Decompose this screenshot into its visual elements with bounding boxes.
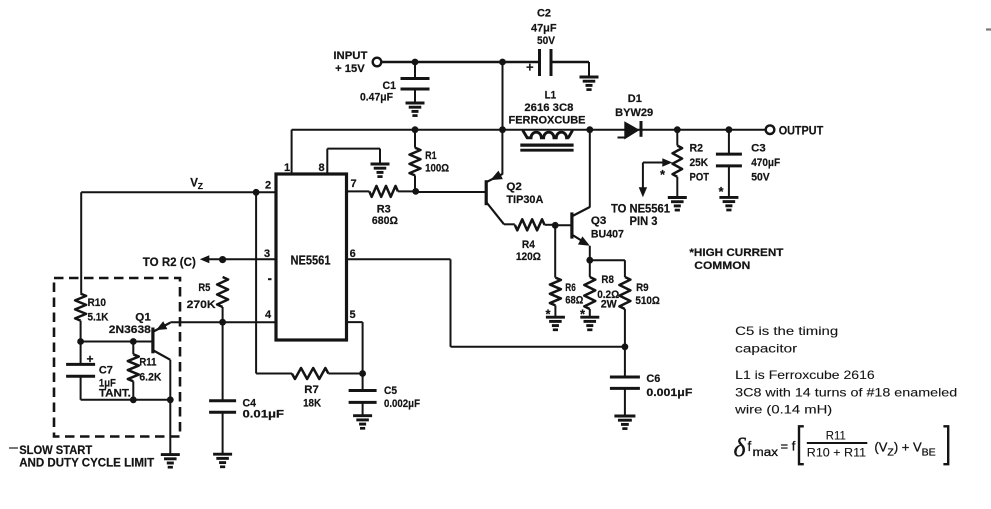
svg-text:R11: R11 (826, 428, 846, 442)
svg-text:L1: L1 (545, 89, 557, 101)
svg-text:Z: Z (198, 181, 203, 191)
svg-text:TO NE5561: TO NE5561 (611, 203, 671, 215)
svg-text:R5: R5 (198, 282, 210, 294)
svg-text:Q1: Q1 (135, 312, 151, 324)
svg-text:NE5561: NE5561 (291, 254, 331, 268)
svg-text:+: + (87, 352, 94, 366)
svg-text:OUTPUT: OUTPUT (779, 125, 824, 137)
svg-text:0.001μF: 0.001μF (646, 387, 692, 399)
svg-text:R4: R4 (522, 239, 536, 251)
svg-text:capacitor: capacitor (735, 342, 797, 356)
svg-text:47μF: 47μF (531, 23, 557, 35)
svg-text:TIP30A: TIP30A (506, 194, 543, 206)
svg-text:f: f (748, 439, 752, 454)
svg-text:4: 4 (265, 309, 272, 321)
svg-text:2W: 2W (601, 299, 618, 311)
svg-text:R1: R1 (425, 150, 437, 162)
svg-text:120Ω: 120Ω (516, 251, 541, 263)
svg-text:BU407: BU407 (591, 228, 624, 240)
svg-text:+: + (526, 60, 534, 75)
svg-text:AND DUTY CYCLE LIMIT: AND DUTY CYCLE LIMIT (19, 456, 155, 470)
svg-text:R2: R2 (690, 143, 704, 155)
svg-text:0.01μF: 0.01μF (243, 408, 285, 420)
svg-text:C3: C3 (751, 143, 766, 155)
svg-text:R3: R3 (377, 204, 391, 216)
svg-text:R10: R10 (88, 297, 107, 309)
svg-text:510Ω: 510Ω (635, 295, 660, 307)
svg-text:270K: 270K (187, 299, 216, 311)
svg-text:3: 3 (264, 248, 270, 260)
svg-text:wire (0.14 mH): wire (0.14 mH) (734, 403, 832, 417)
svg-text:6.2K: 6.2K (139, 372, 161, 384)
svg-text:1: 1 (284, 162, 290, 174)
svg-text:2616 3C8: 2616 3C8 (524, 102, 573, 114)
svg-text:5: 5 (350, 309, 356, 321)
svg-text:50V: 50V (537, 35, 556, 47)
svg-text:R6: R6 (565, 282, 576, 294)
svg-text:+ 15V: + 15V (335, 63, 365, 75)
svg-text:R7: R7 (304, 384, 319, 396)
svg-text:3C8 with 14 turns of #18 ename: 3C8 with 14 turns of #18 enameled (735, 386, 957, 400)
svg-text:PIN 3: PIN 3 (630, 216, 658, 228)
svg-text:C1: C1 (383, 80, 397, 92)
svg-text:COMMON: COMMON (694, 260, 750, 272)
svg-text:7: 7 (351, 178, 357, 190)
svg-text:470μF: 470μF (751, 157, 780, 169)
svg-text:L1 is Ferroxcube 2616: L1 is Ferroxcube 2616 (735, 368, 875, 382)
svg-text:0.47μF: 0.47μF (360, 92, 393, 104)
svg-text:BYW29: BYW29 (615, 107, 653, 119)
svg-text:C2: C2 (537, 7, 551, 19)
svg-text:R9: R9 (636, 282, 649, 294)
svg-text:max: max (753, 447, 779, 459)
svg-text:TO R2 (C): TO R2 (C) (143, 257, 196, 269)
svg-text:C5: C5 (384, 385, 397, 397)
svg-text:R10 + R11: R10 + R11 (807, 446, 867, 460)
svg-text:25K: 25K (690, 157, 709, 169)
svg-text:Q3: Q3 (591, 215, 607, 227)
svg-text:FERROXCUBE: FERROXCUBE (509, 115, 586, 127)
svg-text:680Ω: 680Ω (372, 215, 398, 227)
svg-text:8: 8 (319, 162, 325, 174)
svg-text:TANT.: TANT. (99, 388, 131, 400)
svg-text:18K: 18K (303, 398, 321, 410)
svg-text:50V: 50V (751, 171, 770, 183)
svg-text:= f: = f (781, 439, 796, 454)
svg-text:R11: R11 (139, 357, 156, 369)
svg-text:Q2: Q2 (506, 181, 522, 193)
svg-text:INPUT: INPUT (333, 50, 367, 62)
svg-text:POT: POT (690, 171, 710, 183)
svg-text:*HIGH CURRENT: *HIGH CURRENT (689, 247, 783, 259)
svg-text:C6: C6 (646, 373, 660, 385)
svg-text:100Ω: 100Ω (425, 162, 449, 174)
svg-text:δ: δ (734, 433, 747, 462)
svg-text:0.002μF: 0.002μF (384, 398, 420, 410)
svg-text:R8: R8 (601, 274, 614, 286)
svg-text:68Ω: 68Ω (565, 294, 583, 306)
svg-text:6: 6 (350, 248, 356, 260)
svg-text:C7: C7 (99, 365, 113, 377)
svg-text:D1: D1 (628, 93, 642, 105)
svg-text:C5 is the timing: C5 is the timing (735, 324, 838, 338)
svg-text:2: 2 (265, 179, 271, 191)
svg-text:2N3638: 2N3638 (109, 324, 151, 336)
svg-text:5.1K: 5.1K (88, 311, 109, 323)
